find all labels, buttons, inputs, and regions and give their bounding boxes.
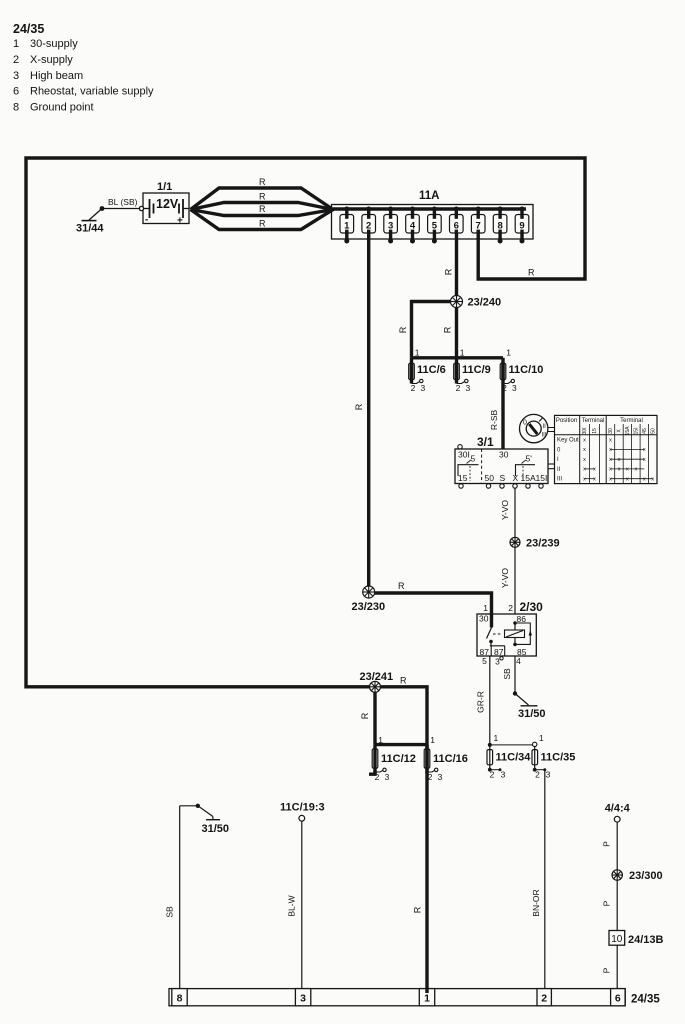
svg-text:3: 3	[438, 772, 443, 782]
svg-text:R: R	[354, 403, 364, 410]
svg-text:II: II	[557, 467, 561, 473]
svg-text:x: x	[635, 467, 638, 473]
svg-text:1: 1	[344, 220, 350, 231]
svg-text:x: x	[583, 447, 586, 453]
svg-text:III: III	[542, 433, 547, 439]
svg-text:1: 1	[506, 348, 511, 358]
svg-text:3: 3	[546, 770, 551, 780]
svg-text:x: x	[609, 447, 612, 453]
svg-text:23/241: 23/241	[360, 671, 394, 683]
svg-text:S: S	[500, 473, 506, 483]
svg-text:P: P	[602, 900, 612, 906]
svg-text:III: III	[557, 477, 562, 483]
svg-text:2: 2	[13, 54, 19, 66]
svg-text:10: 10	[611, 934, 623, 945]
svg-text:2: 2	[375, 772, 380, 782]
svg-text:5': 5'	[526, 454, 533, 464]
svg-text:24/35: 24/35	[631, 994, 660, 1006]
svg-text:6: 6	[13, 86, 19, 98]
svg-text:30I: 30I	[458, 450, 470, 460]
svg-text:High beam: High beam	[30, 70, 83, 82]
svg-text:3: 3	[466, 383, 471, 393]
svg-text:+: +	[177, 216, 183, 227]
svg-text:II: II	[543, 424, 547, 430]
svg-text:11C/12: 11C/12	[381, 753, 416, 765]
svg-text:R: R	[259, 204, 266, 214]
svg-text:x: x	[583, 437, 586, 443]
svg-text:Y-VO: Y-VO	[500, 500, 510, 520]
svg-text:45: 45	[642, 428, 648, 434]
svg-text:8: 8	[497, 220, 502, 231]
svg-text:Position: Position	[556, 418, 577, 424]
svg-text:2: 2	[502, 383, 507, 393]
svg-text:3: 3	[300, 993, 306, 1005]
svg-text:R: R	[259, 219, 266, 229]
svg-text:R: R	[360, 712, 370, 719]
svg-text:1: 1	[483, 603, 488, 613]
svg-text:11C/35: 11C/35	[541, 752, 576, 764]
svg-text:x: x	[593, 467, 596, 473]
svg-text:1: 1	[13, 38, 19, 50]
svg-text:R: R	[259, 177, 266, 187]
svg-text:2: 2	[456, 383, 461, 393]
svg-text:30I: 30I	[582, 428, 588, 435]
svg-text:BN-OR: BN-OR	[531, 889, 541, 916]
svg-text:11C/10: 11C/10	[509, 364, 544, 376]
svg-text:R: R	[398, 581, 405, 591]
svg-text:x: x	[643, 447, 646, 453]
svg-text:8: 8	[177, 993, 183, 1005]
svg-text:Y-VO: Y-VO	[500, 568, 510, 588]
svg-text:30: 30	[499, 450, 509, 460]
svg-text:x: x	[643, 477, 646, 483]
svg-text:3: 3	[13, 70, 19, 82]
svg-text:87: 87	[494, 647, 504, 657]
svg-text:x: x	[626, 477, 629, 483]
svg-text:1: 1	[460, 348, 465, 358]
svg-text:3: 3	[421, 383, 426, 393]
svg-text:x: x	[643, 457, 646, 463]
svg-text:1: 1	[430, 735, 435, 745]
svg-text:24/35: 24/35	[13, 22, 44, 36]
svg-text:R: R	[443, 326, 453, 333]
svg-text:x: x	[583, 477, 586, 483]
svg-text:R: R	[259, 192, 266, 202]
svg-text:2: 2	[535, 770, 540, 780]
svg-text:x: x	[583, 467, 586, 473]
svg-text:3: 3	[501, 770, 506, 780]
svg-text:X-supply: X-supply	[30, 54, 73, 66]
svg-text:2: 2	[411, 383, 416, 393]
svg-text:1: 1	[378, 735, 383, 745]
svg-text:4/4:4: 4/4:4	[605, 803, 631, 815]
svg-text:x: x	[593, 477, 596, 483]
svg-text:15A: 15A	[521, 473, 536, 483]
svg-text:23/230: 23/230	[352, 601, 386, 613]
svg-text:6: 6	[615, 993, 621, 1005]
svg-text:R: R	[400, 676, 407, 686]
svg-text:23/239: 23/239	[526, 538, 560, 550]
svg-text:X: X	[513, 473, 519, 483]
svg-text:30: 30	[608, 428, 614, 434]
svg-text:2: 2	[366, 220, 371, 231]
svg-text:2: 2	[490, 770, 495, 780]
svg-text:23/240: 23/240	[468, 297, 502, 309]
svg-text:31/44: 31/44	[76, 223, 104, 235]
svg-text:30-supply: 30-supply	[30, 38, 78, 50]
svg-text:4: 4	[516, 656, 521, 666]
svg-text:x: x	[626, 467, 629, 473]
svg-text:Ground point: Ground point	[30, 102, 94, 114]
svg-text:15I: 15I	[633, 428, 639, 435]
svg-text:2/30: 2/30	[520, 600, 544, 614]
svg-text:2: 2	[541, 993, 547, 1005]
svg-text:x: x	[618, 467, 621, 473]
svg-text:0: 0	[523, 420, 527, 427]
svg-text:x: x	[609, 437, 612, 443]
svg-text:5: 5	[471, 454, 476, 464]
svg-text:R: R	[398, 326, 408, 333]
svg-text:4: 4	[410, 220, 416, 231]
svg-text:x: x	[583, 457, 586, 463]
svg-text:P: P	[602, 967, 612, 973]
svg-text:9: 9	[519, 220, 524, 231]
svg-text:1: 1	[415, 348, 420, 358]
svg-text:SB: SB	[502, 668, 512, 680]
svg-text:15A: 15A	[625, 426, 631, 436]
svg-text:x: x	[609, 467, 612, 473]
svg-text:31/50: 31/50	[518, 708, 546, 720]
svg-text:Terminal: Terminal	[620, 418, 643, 424]
svg-text:x: x	[651, 477, 654, 483]
svg-text:11A: 11A	[419, 190, 439, 202]
svg-text:50: 50	[485, 473, 495, 483]
svg-text:x: x	[609, 457, 612, 463]
svg-text:15: 15	[458, 473, 468, 483]
svg-text:P: P	[602, 841, 612, 847]
svg-text:BL-W: BL-W	[287, 895, 297, 916]
svg-text:1: 1	[494, 733, 499, 743]
svg-text:5: 5	[482, 656, 487, 666]
svg-text:Key Out: Key Out	[557, 438, 579, 444]
svg-text:30: 30	[479, 614, 489, 624]
svg-text:1/1: 1/1	[157, 181, 172, 193]
svg-text:12V: 12V	[156, 197, 179, 211]
svg-text:3: 3	[512, 383, 517, 393]
svg-text:11C/6: 11C/6	[417, 364, 446, 376]
svg-text:R-SB: R-SB	[489, 410, 499, 431]
svg-text:BL (SB): BL (SB)	[108, 197, 138, 207]
svg-text:GR-R: GR-R	[476, 691, 486, 713]
svg-text:R: R	[413, 906, 423, 913]
svg-text:11C/16: 11C/16	[433, 753, 468, 765]
svg-text:3: 3	[388, 220, 393, 231]
svg-text:2: 2	[508, 603, 513, 613]
svg-text:SB: SB	[165, 906, 175, 918]
svg-text:15I: 15I	[536, 473, 548, 483]
svg-text:11C/34: 11C/34	[496, 752, 532, 764]
svg-text:31/50: 31/50	[202, 823, 230, 835]
svg-text:8: 8	[13, 102, 19, 114]
svg-text:x: x	[618, 457, 621, 463]
svg-text:3: 3	[385, 772, 390, 782]
svg-text:11C/19:3: 11C/19:3	[280, 802, 325, 814]
svg-text:23/300: 23/300	[629, 870, 663, 882]
svg-text:Terminal: Terminal	[582, 418, 605, 424]
svg-text:R: R	[528, 268, 535, 278]
svg-text:15: 15	[592, 428, 598, 434]
svg-text:3/1: 3/1	[477, 435, 494, 449]
svg-text:2: 2	[428, 772, 433, 782]
svg-text:6: 6	[454, 220, 459, 231]
svg-text:1: 1	[424, 993, 430, 1005]
svg-text:11C/9: 11C/9	[462, 364, 491, 376]
svg-text:Rheostat, variable supply: Rheostat, variable supply	[30, 86, 154, 98]
svg-text:1: 1	[539, 733, 544, 743]
svg-text:5: 5	[432, 220, 438, 231]
svg-text:24/13B: 24/13B	[628, 934, 664, 946]
svg-text:-: -	[145, 215, 148, 226]
svg-text:7: 7	[476, 220, 481, 231]
svg-text:x: x	[609, 477, 612, 483]
svg-text:50: 50	[650, 428, 656, 434]
svg-text:R: R	[444, 268, 454, 275]
